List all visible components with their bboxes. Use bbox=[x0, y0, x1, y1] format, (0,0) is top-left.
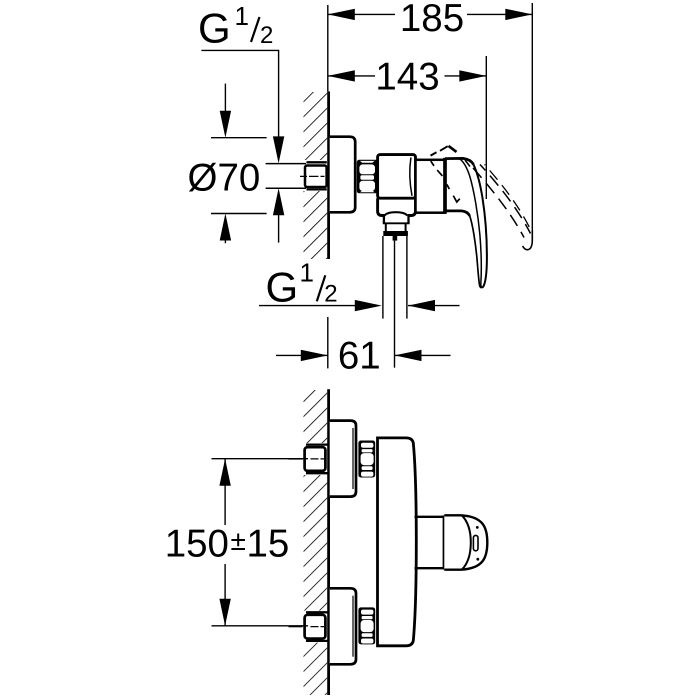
svg-text:1: 1 bbox=[235, 1, 249, 31]
dimension O70 bbox=[211, 137, 267, 139]
upper S-union bars bbox=[306, 443, 328, 445]
outlet collar bbox=[385, 223, 387, 231]
lower S-union centerline bbox=[289, 626, 303, 628]
lever left edge bbox=[470, 216, 482, 288]
svg-text:Ø70: Ø70 bbox=[188, 157, 261, 200]
pipe centerline (dashed) bbox=[300, 175, 325, 177]
supply pipe (G1/2 nipple) bbox=[266, 163, 306, 165]
lower union nut (bottom view) bbox=[358, 607, 375, 644]
wall hatching (bottom view) bbox=[304, 390, 328, 695]
wall extension line top bbox=[327, 5, 329, 91]
143 extension line right bbox=[485, 56, 487, 199]
dimension 61 bbox=[327, 317, 329, 368]
hose outline bbox=[382, 236, 384, 319]
dimension 185 bbox=[328, 13, 395, 15]
svg-text:15: 15 bbox=[247, 522, 290, 565]
outlet nut and cap (bottom view) bbox=[444, 515, 487, 569]
wall line (bottom view) bbox=[327, 389, 330, 695]
lever mid line bbox=[460, 159, 483, 288]
outlet shoulder bbox=[383, 216, 385, 224]
185 extension line right bbox=[531, 3, 533, 232]
dimension 150 +-15 bbox=[212, 458, 309, 460]
G1/2 leader (middle) bbox=[259, 305, 378, 307]
outlet neck (bottom view) bbox=[415, 516, 445, 518]
union bars at wall (top view) bbox=[307, 161, 327, 163]
dashed raised lever: top chevron bbox=[431, 152, 437, 155]
svg-text:±: ± bbox=[231, 525, 246, 556]
svg-text:G: G bbox=[266, 263, 299, 310]
main body (bottom view) bbox=[378, 438, 417, 646]
cap inner edge bbox=[462, 516, 471, 570]
union nut square (top view) bbox=[305, 166, 327, 188]
svg-text:1: 1 bbox=[300, 258, 314, 288]
dashed pulled lever rail A bbox=[473, 168, 524, 238]
upper S-union nut bbox=[305, 447, 326, 471]
white backing for upper S-union (bottom view) bbox=[301, 443, 328, 475]
G1/2 leader (top) bbox=[201, 50, 278, 140]
handle base top bbox=[445, 158, 474, 164]
body front curvature line bbox=[410, 158, 412, 196]
svg-text:61: 61 bbox=[338, 335, 381, 378]
main valve body (top view) bbox=[378, 155, 416, 199]
handle base bottom bbox=[445, 211, 470, 216]
lower S-union nut bbox=[305, 615, 326, 639]
cartridge ring (top view) bbox=[416, 160, 446, 213]
dimension 143 bbox=[328, 75, 375, 77]
union nut between flange and body (top view) bbox=[357, 160, 378, 194]
outlet dome bbox=[384, 212, 407, 215]
outlet divider bbox=[443, 515, 446, 569]
divider thick line bbox=[443, 158, 447, 214]
svg-text:2: 2 bbox=[260, 22, 273, 49]
white backing for lower S-union (bottom view) bbox=[301, 611, 328, 643]
dashed raised lever: under edge bbox=[431, 161, 434, 166]
hose center square bbox=[393, 236, 398, 241]
wall hatching (top view) bbox=[304, 92, 328, 259]
lower wall flange (bottom view) bbox=[330, 588, 356, 664]
upper S-union centerline bbox=[289, 458, 303, 460]
upper union nut (bottom view) bbox=[358, 441, 375, 478]
dashed pulled lever rail B1 bbox=[480, 165, 531, 234]
svg-text:2: 2 bbox=[324, 280, 337, 307]
cap dots bbox=[476, 526, 479, 529]
body lower section bbox=[378, 198, 416, 215]
wall flange / escutcheon (top view) bbox=[330, 137, 356, 213]
upper wall flange (bottom view) bbox=[330, 421, 356, 497]
lower S-union bars bbox=[306, 611, 328, 613]
svg-text:185: 185 bbox=[400, 0, 464, 40]
dashed lever tip curl bbox=[523, 230, 533, 250]
hose centerline / 61 extension bbox=[394, 241, 396, 368]
outlet black band bbox=[383, 231, 408, 236]
wall line (top view) bbox=[327, 91, 330, 259]
svg-text:150: 150 bbox=[165, 522, 229, 565]
dashed pulled lever rail B2 bbox=[485, 165, 533, 235]
svg-text:143: 143 bbox=[375, 55, 439, 98]
svg-text:G: G bbox=[198, 5, 231, 52]
cap slot bbox=[473, 535, 478, 550]
pipe lower arrow bbox=[278, 212, 280, 243]
lever outer edge bbox=[474, 165, 487, 288]
white backing for pipe union (top view) bbox=[301, 160, 328, 191]
